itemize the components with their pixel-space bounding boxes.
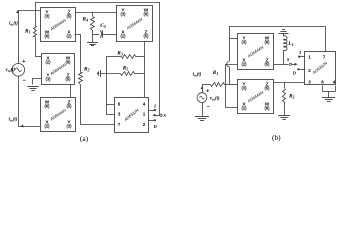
svg-text:3: 3: [118, 112, 121, 117]
op-amp U3 (AD844AN, middle-left of fig a): [42, 54, 75, 85]
wire top line of fig a: [35, 2, 159, 4]
source Vin fig a: [12, 64, 25, 77]
label S (a): [163, 113, 166, 118]
svg-text:(6): (6): [264, 40, 270, 45]
ground below Vin (b): [195, 117, 209, 121]
wire source to ground (b): [202, 103, 204, 117]
label R4: [83, 17, 89, 23]
svg-text:vin(t): vin(t): [210, 96, 220, 101]
svg-text:(3): (3): [66, 124, 72, 129]
svg-text:(b): (b): [272, 133, 281, 142]
arrow output current fig a (left): [21, 125, 24, 128]
svg-text:(2): (2): [120, 34, 126, 39]
svg-text:(a): (a): [80, 134, 89, 143]
wire left vertical fig b (top to R1 node) with hop: [227, 26, 230, 85]
label v_in(t) fig a: [6, 68, 16, 73]
label R5: [123, 66, 129, 72]
ground below R2 (b): [278, 116, 290, 120]
wire M1 pin2-row to throw D: [149, 120, 155, 122]
svg-text:7: 7: [323, 55, 326, 60]
node throw D dot (b): [297, 68, 299, 70]
svg-text:(6): (6): [264, 106, 270, 111]
wire U1 Z to U2 Y: [75, 12, 116, 14]
label - of Vin (b): [207, 104, 210, 110]
label L1: [287, 41, 293, 47]
svg-text:(5): (5): [66, 14, 72, 19]
label I (a): [153, 103, 156, 108]
label v_in(t) fig b: [210, 96, 220, 101]
svg-text:(3): (3): [45, 77, 51, 82]
label + of Vin (a): [22, 59, 25, 65]
op-amp U1 (AD844AN current conveyor, top-left of fig a): [41, 8, 76, 42]
svg-text:I: I: [298, 50, 301, 55]
wire U6 Z to M2 pin3: [274, 82, 305, 84]
svg-text:(5): (5): [143, 34, 149, 39]
label I (b): [298, 50, 301, 55]
svg-text:4: 4: [143, 101, 146, 106]
node throw I dot (a): [154, 109, 156, 111]
source Vin fig b: [197, 93, 207, 103]
wire U5 X to U6 X connector: [226, 65, 238, 108]
caption (b): [272, 133, 281, 142]
op-amp U6 (AD844AN, bottom box fig b): [238, 80, 274, 114]
label - of Vin (a): [23, 78, 26, 84]
svg-text:3: 3: [308, 79, 311, 84]
svg-text:(6): (6): [143, 12, 149, 17]
svg-text:iin(t): iin(t): [193, 73, 202, 78]
svg-text:6: 6: [321, 79, 324, 84]
label D (a): [153, 124, 158, 129]
svg-text:+: +: [22, 59, 25, 65]
wire C2 to U2 X: [103, 34, 116, 36]
wire top-left to U1 Y: [18, 10, 41, 12]
svg-text:−: −: [207, 104, 210, 110]
svg-text:(5): (5): [65, 77, 71, 82]
svg-text:(2): (2): [241, 106, 247, 111]
arrow input current fig a (up): [16, 10, 19, 13]
ground left of R5 (sideways): [98, 70, 101, 77]
resistor R4 (vertical): [91, 12, 95, 42]
op-amp U4 (AD844AN, bottom-left of fig a): [41, 98, 76, 132]
label + of Vin (b): [206, 89, 209, 95]
wire right line of fig a: [159, 2, 161, 115]
resistor R5 (horizontal): [101, 72, 145, 76]
svg-text:S: S: [287, 57, 290, 62]
svg-text:(3): (3): [241, 86, 247, 91]
label i_in(t) fig b: [193, 73, 202, 78]
wire U2 Z down to M1 pin4: [144, 41, 146, 97]
caption (a): [80, 134, 89, 143]
svg-text:(3): (3): [120, 12, 126, 17]
wire M2 pins 6,4 to ground: [323, 86, 336, 98]
label R1 (a): [25, 29, 31, 35]
wire below source down-left: [18, 76, 20, 126]
resistor R1 fig b (horizontal): [202, 83, 238, 87]
wire top line of fig b: [229, 26, 325, 28]
wire R1 to U3 X: [35, 56, 41, 58]
svg-text:vin(t): vin(t): [6, 68, 16, 73]
label R2 (b): [289, 94, 295, 100]
svg-text:I: I: [153, 103, 156, 108]
wire throw I to M2 pin1: [299, 56, 305, 58]
svg-text:(6): (6): [65, 60, 71, 65]
svg-text:S: S: [163, 113, 166, 118]
wire R2 down to M1 pin7: [81, 85, 115, 125]
wire top-line down to M2 pin7: [325, 26, 327, 51]
svg-text:(6): (6): [44, 34, 50, 39]
op-amp U5 (AD844AN, top box fig b): [238, 34, 274, 70]
svg-text:iin(t): iin(t): [9, 22, 18, 27]
svg-text:2: 2: [143, 122, 146, 127]
wire bottom to U4 X: [18, 126, 40, 128]
wire U5 Y tee: [229, 38, 237, 40]
wire throw D to M2 pin2: [298, 69, 304, 71]
wire left vertical input: [18, 11, 20, 64]
svg-text:(5): (5): [264, 62, 270, 67]
wire U3 Z down to U4 Z: [70, 85, 72, 98]
switch S pivot circle (b): [289, 63, 291, 65]
multiplier M2 (AD633JN, fig b): [305, 52, 336, 85]
wire U1 X right then down (R2 branch): [75, 35, 81, 73]
label D (b): [292, 70, 297, 75]
svg-text:1: 1: [308, 55, 311, 60]
svg-text:4: 4: [333, 79, 336, 84]
wire U3 Y to ground: [33, 79, 42, 85]
label i_in(t) top-left: [9, 22, 18, 27]
svg-text:(2): (2): [45, 60, 51, 65]
svg-text:7: 7: [118, 122, 121, 127]
svg-text:(2): (2): [66, 34, 72, 39]
label S (b): [287, 57, 290, 62]
label i_in(t) bottom-left: [9, 118, 18, 123]
node throw I dot (b): [298, 56, 300, 58]
node throw D dot (a): [154, 119, 156, 121]
switch S wiper arrow (b): [292, 63, 298, 66]
arrow input current fig b (up): [201, 85, 204, 93]
svg-text:(5): (5): [264, 86, 270, 91]
switch S wiper arrow (a): [153, 114, 160, 117]
svg-text:(2): (2): [241, 62, 247, 67]
inductor L1 (vertical): [284, 36, 287, 64]
ground below M2: [322, 98, 335, 102]
svg-text:(5): (5): [66, 104, 72, 109]
wire M1 pin4-row to throw I: [149, 110, 155, 112]
label C2: [100, 23, 106, 29]
resistor R1 (vertical): [34, 2, 37, 57]
svg-text:iin(t): iin(t): [9, 118, 18, 123]
multiplier M1 (AD633JN, fig a): [115, 98, 149, 133]
svg-text:(3): (3): [241, 40, 247, 45]
ground below R4: [87, 43, 98, 46]
svg-text:−: −: [23, 78, 26, 84]
svg-text:(6): (6): [44, 104, 50, 109]
label R2 (a): [84, 67, 90, 73]
svg-text:(3): (3): [44, 14, 50, 19]
capacitor C2: [100, 30, 102, 37]
resistor R2 fig b (vertical): [283, 82, 286, 115]
label R3: [117, 50, 123, 56]
resistor R2 (vertical): [79, 73, 83, 85]
ground below U3 Y: [27, 87, 39, 91]
resistor R3 (horizontal): [106, 55, 144, 59]
wire U5 Z to switch (b): [274, 64, 289, 66]
switch S pivot circle (a): [160, 114, 162, 116]
wire R3/R5 left vertical to M1 pins 6,3: [106, 57, 114, 115]
svg-text:1: 1: [143, 112, 146, 117]
op-amp U2 (AD844AN, top-right of fig a): [117, 6, 153, 42]
svg-text:6: 6: [118, 101, 121, 106]
ground above L1: [279, 30, 289, 37]
wire R4 node to C2: [93, 34, 100, 36]
svg-text:+: +: [206, 89, 209, 95]
label R1 (b): [213, 70, 219, 76]
svg-text:(2): (2): [44, 124, 50, 129]
